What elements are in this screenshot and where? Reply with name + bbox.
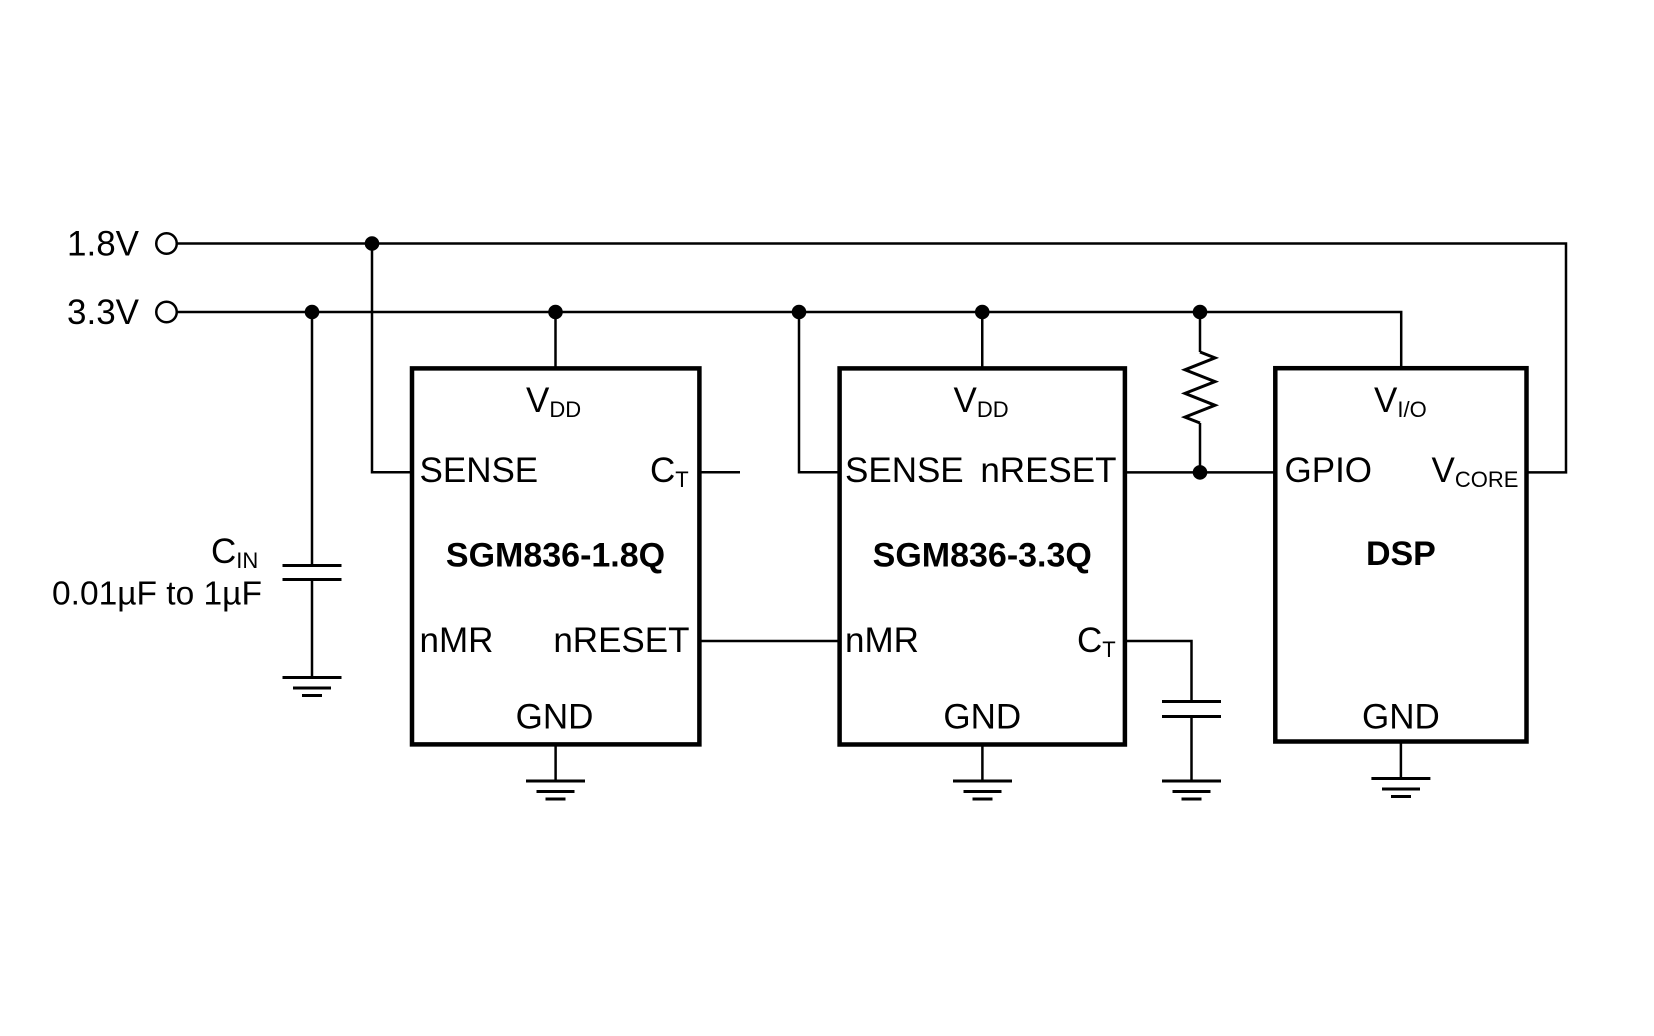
svg-text:1.8V: 1.8V (67, 225, 140, 264)
svg-text:SENSE: SENSE (845, 451, 964, 490)
svg-text:SENSE: SENSE (420, 451, 539, 490)
wire chip2 nRESET to DSP GPIO (1125, 471, 1275, 474)
svg-text:GND: GND (1362, 698, 1440, 737)
terminal 3.3V (67, 293, 177, 332)
resistor pull-up (1185, 352, 1215, 423)
node junction 3.3V/chip2 SENSE (792, 305, 807, 320)
wire 1.8V to chip1 SENSE (372, 244, 412, 473)
wire chip2 CT to capacitor (1125, 641, 1192, 702)
wire 3.3V to chip1 VDD (554, 312, 557, 368)
wire 3.3V rail to DSP VIO (177, 312, 1401, 368)
wire CIN to ground (311, 580, 314, 678)
terminal 1.8V (67, 225, 177, 264)
node junction 3.3V/chip2 VDD (975, 305, 990, 320)
node junction 3.3V/CIN (305, 305, 320, 320)
wire 3.3V to CIN (311, 312, 314, 566)
capacitor CT timing (1162, 702, 1221, 717)
wire 1.8V rail to DSP VCORE (177, 244, 1566, 473)
ground below chip U2 (953, 781, 1012, 799)
svg-text:DSP: DSP (1366, 535, 1436, 573)
svg-text:nRESET: nRESET (980, 451, 1116, 490)
svg-text:SGM836-1.8Q: SGM836-1.8Q (446, 537, 665, 575)
ground below CIN (283, 678, 342, 696)
svg-text:GND: GND (516, 698, 594, 737)
node junction on 1.8V rail (365, 236, 380, 251)
ground below chip U1 (526, 781, 585, 799)
ground below CT capacitor (1162, 781, 1221, 799)
chip U1 SGM836-1.8Q (412, 368, 699, 744)
svg-text:GPIO: GPIO (1285, 451, 1373, 490)
ground below DSP (1371, 779, 1430, 797)
chip U3 DSP (1275, 368, 1526, 741)
svg-text:GND: GND (943, 698, 1021, 737)
node junction resistor/nRESET (1193, 465, 1208, 480)
wire resistor to nRESET line (1199, 423, 1202, 472)
wire chip2 GND to ground (981, 745, 984, 782)
chip U2 SGM836-3.3Q (840, 368, 1125, 744)
svg-text:nMR: nMR (420, 621, 494, 660)
wire chip1 nRESET to chip2 nMR (699, 640, 839, 643)
wire chip1 GND to ground (554, 744, 557, 781)
svg-text:nRESET: nRESET (553, 621, 689, 660)
svg-text:0.01µF to 1µF: 0.01µF to 1µF (52, 576, 262, 613)
svg-text:SGM836-3.3Q: SGM836-3.3Q (873, 537, 1092, 575)
wire DSP GND to ground (1400, 742, 1403, 779)
svg-text:nMR: nMR (845, 621, 919, 660)
wire 3.3V to resistor (1199, 312, 1202, 352)
svg-text:3.3V: 3.3V (67, 293, 140, 332)
node junction 3.3V/chip1 VDD (548, 305, 563, 320)
wire capacitor to ground (1190, 717, 1193, 782)
wire chip1 CT stub (699, 471, 740, 474)
wire 3.3V to chip2 SENSE (799, 312, 840, 472)
node junction 3.3V/resistor (1193, 305, 1208, 320)
wire 3.3V to chip2 VDD (981, 312, 984, 368)
capacitor CIN (52, 532, 342, 613)
